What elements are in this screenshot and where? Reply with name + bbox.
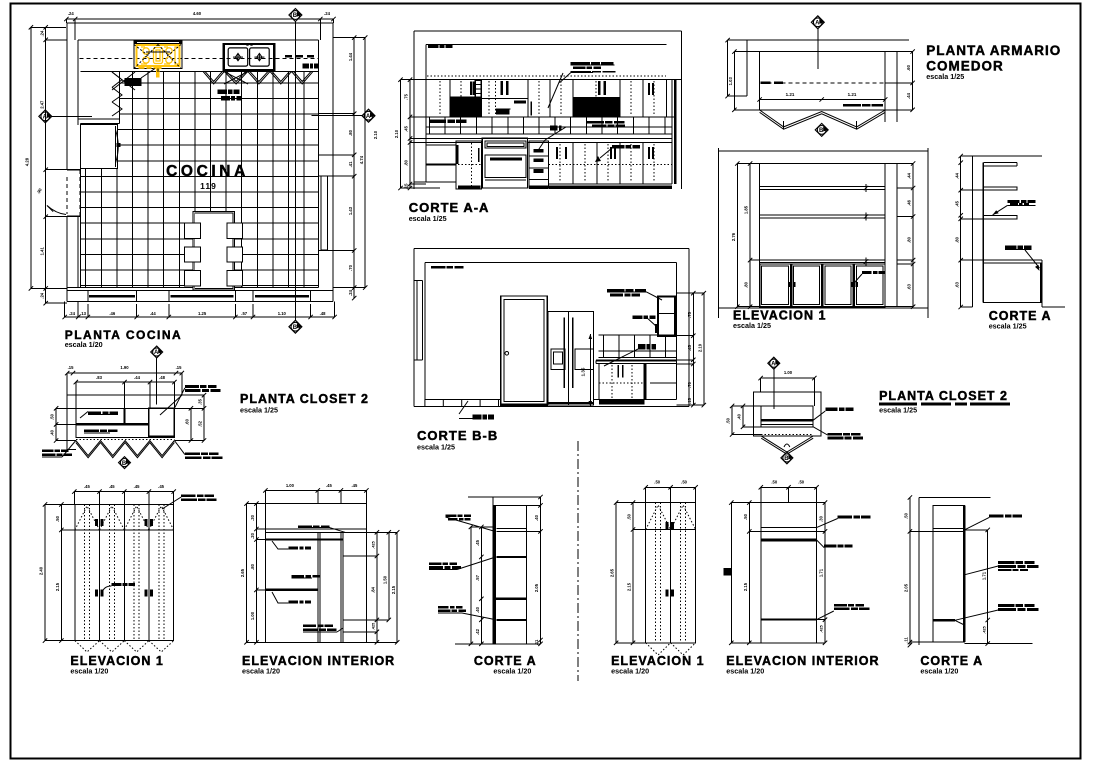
svg-text:.50: .50 xyxy=(726,417,731,423)
svg-text:A: A xyxy=(154,350,159,356)
elev1BL handles xyxy=(95,519,98,526)
svg-text:2.15: 2.15 xyxy=(55,582,60,591)
corte A-A right wall post xyxy=(671,80,673,184)
svg-text:.42: .42 xyxy=(475,628,480,634)
grid line B top xyxy=(289,9,302,22)
corte A-A microwave black xyxy=(496,109,509,114)
svg-text:.50: .50 xyxy=(743,513,748,519)
elevacion1 TR dims right xyxy=(912,164,914,307)
svg-text:2.15: 2.15 xyxy=(627,582,632,591)
svg-text:.46: .46 xyxy=(907,199,912,205)
svg-text:2.05: 2.05 xyxy=(534,583,539,592)
svg-text:.52: .52 xyxy=(198,420,203,426)
planta armario dims left xyxy=(727,40,729,96)
corte B-B counter top xyxy=(598,357,676,359)
elevacion1 TR closet body xyxy=(760,164,885,307)
svg-text:1.10: 1.10 xyxy=(278,311,287,316)
corte B-B small text topleft xyxy=(431,266,446,269)
closet2L shelf compartment xyxy=(149,408,175,436)
svg-text:.45: .45 xyxy=(134,484,140,489)
svg-text:A: A xyxy=(43,115,48,121)
svg-text:B: B xyxy=(293,13,298,19)
svg-text:1.50: 1.50 xyxy=(382,575,387,584)
svg-text:2.76: 2.76 xyxy=(731,232,736,241)
svg-text:1.03: 1.03 xyxy=(728,77,733,86)
svg-text:escala 1/20: escala 1/20 xyxy=(611,667,649,676)
planta armario dims right xyxy=(896,52,898,122)
corte A-A shelf lines xyxy=(482,98,528,100)
svg-text:escala 1/20: escala 1/20 xyxy=(242,667,280,676)
corte A-A cornice dotted xyxy=(427,75,666,77)
elevIntBL dividers xyxy=(317,532,319,642)
svg-text:1.44: 1.44 xyxy=(348,52,353,61)
svg-text:.24: .24 xyxy=(39,292,44,298)
elevIntBR dims right xyxy=(824,503,826,643)
corte A-A oven xyxy=(482,138,527,188)
svg-text:.15: .15 xyxy=(687,397,692,403)
svg-text:escala 1/20: escala 1/20 xyxy=(920,667,958,676)
svg-text:.45: .45 xyxy=(109,484,115,489)
svg-text:.63: .63 xyxy=(907,283,912,289)
svg-text:PLANTA ARMARIO: PLANTA ARMARIO xyxy=(926,43,1061,58)
closet2L rod xyxy=(76,423,149,426)
cabinet V marks on counter xyxy=(203,71,313,84)
corte A-A hood black left xyxy=(450,96,482,117)
svg-text:1.21: 1.21 xyxy=(848,92,857,97)
svg-text:1.85: 1.85 xyxy=(744,205,749,214)
svg-text:escala 1/25: escala 1/25 xyxy=(409,214,447,223)
svg-text:.75: .75 xyxy=(404,93,409,99)
svg-text:1.43: 1.43 xyxy=(348,206,353,215)
svg-text:.70: .70 xyxy=(348,264,353,270)
corte A-A right base cabinets xyxy=(547,143,549,189)
corte B-B dims right xyxy=(692,293,694,405)
svg-text:.40: .40 xyxy=(534,514,539,520)
corte B-B tile annotation bar xyxy=(638,344,646,349)
planta armario step outline xyxy=(747,39,909,41)
svg-text:.83: .83 xyxy=(96,375,102,380)
corte A-A left base white cabinet xyxy=(426,145,456,182)
svg-text:1.71: 1.71 xyxy=(819,568,824,577)
svg-text:.80: .80 xyxy=(348,129,353,135)
svg-text:2.10: 2.10 xyxy=(373,130,378,139)
elevacion1 TR side panel xyxy=(896,164,898,307)
svg-text:.45: .45 xyxy=(158,484,164,489)
svg-text:2.65: 2.65 xyxy=(240,568,245,577)
corte B-B floor annotation xyxy=(459,401,468,414)
corteABL annotations left xyxy=(446,514,457,517)
corte A-A dim left xyxy=(400,80,402,188)
dimension line right inner xyxy=(353,38,355,299)
svg-text:.24: .24 xyxy=(348,289,353,295)
corteABR right lines xyxy=(964,529,987,531)
svg-text:A: A xyxy=(366,114,371,120)
closet2L inner box xyxy=(76,408,175,437)
left counter xyxy=(78,118,120,120)
svg-text:.11: .11 xyxy=(904,637,909,643)
corteABL top line xyxy=(468,496,537,498)
svg-text:CORTE A-A: CORTE A-A xyxy=(409,200,490,215)
svg-text:.40: .40 xyxy=(50,429,55,435)
corte B-B backsplash tiles xyxy=(604,335,666,357)
corte A-A single bar right xyxy=(530,101,532,115)
corte B-B annotation mueble alto xyxy=(607,289,625,292)
svg-text:.45: .45 xyxy=(404,125,409,131)
corteA TR back panel xyxy=(982,163,984,303)
svg-text:.15: .15 xyxy=(68,365,74,370)
svg-text:B: B xyxy=(819,128,824,134)
svg-text:.50: .50 xyxy=(904,512,909,518)
svg-text:1.21: 1.21 xyxy=(786,92,795,97)
planta armario body xyxy=(760,52,886,110)
svg-text:.60: .60 xyxy=(906,64,911,70)
corteA TR shelf 2 xyxy=(983,215,1016,219)
svg-text:1.25: 1.25 xyxy=(198,311,207,316)
svg-text:4.74: 4.74 xyxy=(359,155,364,164)
corte A-A counter top xyxy=(426,138,672,140)
elevIntBL shelf thick 1 xyxy=(265,538,342,540)
svg-text:escala 1/20: escala 1/20 xyxy=(70,667,108,676)
svg-text:B: B xyxy=(293,325,298,331)
corte A-A hood black right xyxy=(573,97,620,117)
corte B-B fridge xyxy=(548,312,593,406)
svg-text:.425: .425 xyxy=(372,541,376,548)
svg-text:.30: .30 xyxy=(250,514,255,520)
elevIntBL annotation bars xyxy=(288,546,298,549)
closet2L dim top1 xyxy=(67,372,182,374)
closet2R dim 1.00 xyxy=(761,377,815,379)
corte B-B door xyxy=(501,296,548,405)
svg-text:.45: .45 xyxy=(475,539,480,545)
grid line A right xyxy=(362,109,375,122)
svg-text:4.28: 4.28 xyxy=(25,157,30,166)
closet2L grid symbol A xyxy=(151,346,163,358)
svg-text:.24: .24 xyxy=(39,30,44,36)
table xyxy=(193,211,235,290)
dimension line top xyxy=(66,18,333,20)
svg-text:2.15: 2.15 xyxy=(743,582,748,591)
planta armario grid symbol A xyxy=(811,16,824,29)
svg-text:.50: .50 xyxy=(55,515,60,521)
corteABR dims left xyxy=(909,498,911,646)
svg-text:.40: .40 xyxy=(475,606,480,612)
planta armario folding doors zigzag xyxy=(760,110,886,127)
fridge xyxy=(80,124,117,168)
svg-text:.44: .44 xyxy=(954,172,959,178)
svg-text:2.05: 2.05 xyxy=(904,583,909,592)
elevIntBR annotation tablero xyxy=(834,604,847,607)
stove xyxy=(134,41,182,45)
elevIntBR body xyxy=(761,503,817,643)
svg-text:PLANTA CLOSET 2: PLANTA CLOSET 2 xyxy=(240,392,369,406)
corte A-A outer frame xyxy=(414,30,681,32)
svg-text:2.10: 2.10 xyxy=(394,129,399,138)
corte A-A handle bars base xyxy=(556,147,558,159)
corte A-A leader to counter xyxy=(545,127,566,140)
corte B-B base cabinet xyxy=(599,364,645,400)
elevIntBL dim top xyxy=(265,489,366,491)
svg-text:A: A xyxy=(815,21,820,27)
closet2L annotation right bottom xyxy=(185,453,200,456)
closet2R annotation melamine xyxy=(825,408,837,412)
closet2L annotation bars inside xyxy=(88,412,101,415)
closet2L dims left xyxy=(55,408,57,440)
elevIntBR lower shelf xyxy=(761,619,817,621)
svg-text:.50: .50 xyxy=(654,480,660,485)
svg-text:A: A xyxy=(771,361,776,367)
bottom wall black bars xyxy=(89,295,135,298)
elev1BL dotted projections xyxy=(84,504,86,640)
svg-text:PLANTA CLOSET 2: PLANTA CLOSET 2 xyxy=(879,389,1008,403)
elevIntBR dims left xyxy=(730,503,732,643)
corteABL cabinet xyxy=(493,504,527,506)
svg-text:.50: .50 xyxy=(50,413,55,419)
svg-text:.80: .80 xyxy=(954,236,959,242)
svg-text:.24: .24 xyxy=(324,11,330,16)
svg-text:.13: .13 xyxy=(80,311,86,316)
corte B-B outer frame xyxy=(414,247,689,249)
dimension line bottom xyxy=(65,316,335,318)
dimension line left outer 4.28 xyxy=(30,27,32,288)
annotation bars below sink xyxy=(218,89,227,94)
corteA TR dims left xyxy=(960,156,962,307)
elevIntBR dim top xyxy=(761,486,817,488)
svg-text:escala 1/25: escala 1/25 xyxy=(879,406,917,415)
svg-text:.60: .60 xyxy=(185,418,190,424)
corteA TR annotation cerradura xyxy=(1005,246,1017,250)
planta armario grid symbol B xyxy=(815,123,828,136)
svg-text:.45: .45 xyxy=(351,483,357,488)
elev1BL annotation tirador xyxy=(111,583,121,586)
svg-text:1.00: 1.00 xyxy=(784,370,793,375)
elevacion1 TR dims left xyxy=(736,164,738,307)
elevIntBL annotation top xyxy=(298,525,312,527)
elevacion1 TR door handles xyxy=(788,282,791,287)
corteA TR top line xyxy=(973,155,1042,157)
corte A-A tile label bar xyxy=(430,120,447,123)
corte B-B right open shelf xyxy=(650,382,676,384)
corte B-B fridge dim 1.35 xyxy=(589,334,591,406)
corteABR shelf xyxy=(933,619,955,621)
svg-text:2.15: 2.15 xyxy=(391,585,396,594)
svg-text:.80: .80 xyxy=(907,236,912,242)
corte B-B left wall window xyxy=(416,280,418,359)
svg-text:escala 1/25: escala 1/25 xyxy=(926,72,964,81)
dimension line right outer 4.74 xyxy=(364,38,366,288)
svg-text:escala 1/25: escala 1/25 xyxy=(417,443,455,452)
elev1BR body xyxy=(646,503,696,643)
svg-text:escala 1/25: escala 1/25 xyxy=(989,322,1027,331)
closet2R grid symbol B xyxy=(781,452,793,464)
closet2L annotation right top xyxy=(185,385,199,388)
annotation bar right of sink xyxy=(303,64,309,69)
elevIntBR annotation melamine xyxy=(838,516,853,519)
svg-text:escala 1/25: escala 1/25 xyxy=(733,321,771,330)
corte A-A base floor line xyxy=(414,181,426,183)
corte A-A annotation puerta melamina xyxy=(571,62,590,65)
svg-text:2.65: 2.65 xyxy=(610,568,615,577)
svg-text:B: B xyxy=(784,456,789,462)
svg-text:.50: .50 xyxy=(681,480,687,485)
svg-text:.44: .44 xyxy=(907,172,912,178)
corner black appliance xyxy=(125,78,142,86)
closet2R annotation tablero xyxy=(828,433,843,436)
svg-text:.35: .35 xyxy=(198,398,203,404)
svg-text:escala 1/20: escala 1/20 xyxy=(65,340,103,349)
dimension line left inner xyxy=(45,27,47,303)
corteABR annotation melamine xyxy=(989,514,1004,517)
svg-text:.45: .45 xyxy=(326,483,332,488)
svg-text:1.00: 1.00 xyxy=(250,611,255,620)
svg-text:.44: .44 xyxy=(134,375,140,380)
corte A-A annotation bars middle xyxy=(550,126,554,131)
corte A-A dishwasher unit xyxy=(456,141,482,189)
corte A-A drawer unit xyxy=(529,141,548,188)
corte A-A handle bars upper left xyxy=(470,82,472,95)
svg-text:B: B xyxy=(122,461,127,467)
svg-text:.425: .425 xyxy=(820,625,824,632)
svg-text:CORTE B-B: CORTE B-B xyxy=(417,428,498,443)
svg-text:.425: .425 xyxy=(372,623,376,630)
corte B-B annotation tablero xyxy=(632,315,642,318)
closet2R zigzag door xyxy=(761,436,813,452)
svg-text:.45: .45 xyxy=(84,484,90,489)
svg-text:.80: .80 xyxy=(250,563,255,569)
svg-text:.44: .44 xyxy=(150,311,156,316)
closet2L dim top2 xyxy=(76,381,175,383)
closet2R grid symbol A xyxy=(768,357,780,369)
corteA TR shelf 1 xyxy=(983,187,1016,190)
svg-text:.57: .57 xyxy=(475,574,480,580)
svg-text:.75: .75 xyxy=(687,311,692,317)
elev1BL annotation top right xyxy=(181,495,196,498)
corte B-B floor xyxy=(425,398,676,400)
svg-text:.46: .46 xyxy=(109,311,115,316)
door opening dashed xyxy=(66,177,68,214)
svg-text:.40: .40 xyxy=(737,413,742,419)
elev1BL dim top xyxy=(74,491,173,493)
svg-text:.63: .63 xyxy=(954,281,959,287)
corte A-A handle bars upper mid xyxy=(500,81,503,95)
closet2L dotted line xyxy=(76,439,175,441)
closet2R outer xyxy=(753,392,821,436)
corteABR body xyxy=(933,505,964,642)
svg-text:1.00: 1.00 xyxy=(286,483,295,488)
svg-text:escala 1/20: escala 1/20 xyxy=(726,667,764,676)
elevIntBL dims right xyxy=(376,532,378,642)
elevIntBL right shelves xyxy=(343,555,366,557)
elevacion1 TR shelf mid ticks xyxy=(864,186,868,190)
svg-text:1.41: 1.41 xyxy=(39,247,44,256)
corteABR annotation tablero xyxy=(998,604,1014,607)
svg-text:COCINA: COCINA xyxy=(166,163,249,180)
elevIntBL body xyxy=(265,504,366,643)
svg-text:1.35: 1.35 xyxy=(581,367,586,376)
corteABL door panel xyxy=(494,505,496,643)
grid line A left xyxy=(39,110,52,123)
right wall window xyxy=(321,176,328,250)
corte A-A ladder column xyxy=(475,80,481,98)
svg-text:.45: .45 xyxy=(954,200,959,206)
svg-text:.24: .24 xyxy=(68,11,74,16)
svg-text:.48: .48 xyxy=(159,375,165,380)
sink xyxy=(224,44,275,70)
grid line B bottom xyxy=(289,320,302,333)
floor tile grid xyxy=(80,71,318,287)
svg-text:.84: .84 xyxy=(371,586,376,592)
svg-text:.41: .41 xyxy=(348,161,353,167)
bottom wall pilaster verticals xyxy=(87,290,89,301)
elev1BL dims left xyxy=(44,504,46,640)
corte A-A backsplash tile band xyxy=(426,126,672,128)
corteABR annotation puerta xyxy=(998,561,1014,564)
closet2R inner xyxy=(761,406,813,427)
closet2R dims left xyxy=(731,406,733,435)
corte A-A small text topleft xyxy=(428,45,439,48)
planta cocina walls xyxy=(67,22,333,24)
svg-text:escala 1/20: escala 1/20 xyxy=(493,667,531,676)
svg-text:.50: .50 xyxy=(798,480,804,485)
corte B-B door threshold xyxy=(501,404,548,407)
corteABL inner dims xyxy=(470,527,472,644)
left counter V marks xyxy=(112,72,122,116)
svg-text:.48: .48 xyxy=(320,311,326,316)
svg-text:.15: .15 xyxy=(176,365,182,370)
separator dash-dot line xyxy=(577,441,579,681)
planta armario dashed line xyxy=(761,82,886,84)
elevIntBL dims left xyxy=(246,504,248,643)
corte A-A ceiling line xyxy=(414,79,681,81)
svg-text:.80: .80 xyxy=(404,159,409,165)
svg-text:.24: .24 xyxy=(69,311,75,316)
svg-text:.80: .80 xyxy=(744,281,749,287)
elevacion1 TR annotation tirador xyxy=(862,271,872,274)
svg-text:.45: .45 xyxy=(687,344,692,350)
corte A-A handle bars upper right xyxy=(598,81,601,95)
corte A-A upper cabinets xyxy=(426,116,675,118)
elevIntBR thick shelf xyxy=(761,538,817,541)
counter dashed centerline xyxy=(80,58,318,60)
svg-text:.57: .57 xyxy=(241,311,247,316)
corteA TR annotation melamine xyxy=(1007,200,1019,203)
corte B-B upper cabinet right xyxy=(658,297,675,337)
svg-text:.30: .30 xyxy=(819,515,824,521)
closet2L annotation left bottom xyxy=(42,450,53,453)
elev1BR handles xyxy=(666,522,669,529)
svg-text:1.90: 1.90 xyxy=(120,365,129,370)
svg-text:.20: .20 xyxy=(250,532,255,538)
closet2L divider xyxy=(124,408,126,424)
corteABR top line xyxy=(919,497,991,499)
svg-text:.70: .70 xyxy=(687,381,692,387)
corteA TR base cabinet xyxy=(983,259,1042,261)
svg-text:.11: .11 xyxy=(534,639,539,645)
svg-text:escala 1/25: escala 1/25 xyxy=(240,406,278,415)
svg-text:.50: .50 xyxy=(627,513,632,519)
closet2R dotted xyxy=(761,434,813,436)
svg-text:1.71: 1.71 xyxy=(981,571,986,580)
elev1BR dim top xyxy=(646,486,696,488)
svg-text:119: 119 xyxy=(200,181,217,191)
elevIntBL shelf thick 2 xyxy=(265,589,317,591)
svg-text:2.40: 2.40 xyxy=(39,566,44,575)
closet2L grid symbol B xyxy=(119,457,131,469)
closet2L outline xyxy=(67,394,182,396)
elev1BR dotted xyxy=(655,503,657,643)
planta armario inner dim xyxy=(760,99,886,101)
svg-text:4.60: 4.60 xyxy=(193,11,202,16)
elevacion1 TR wall lines xyxy=(718,150,928,152)
